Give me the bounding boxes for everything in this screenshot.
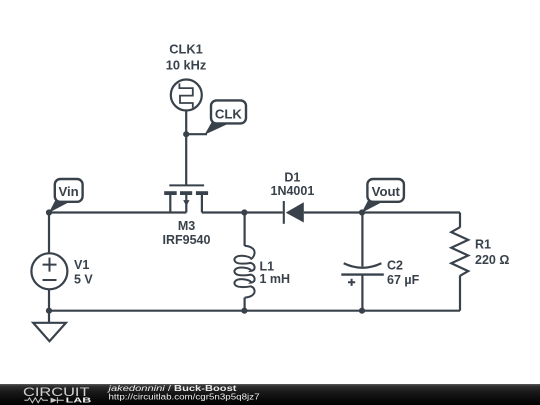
wire R1 bottom lead — [459, 276, 461, 311]
transistor M3 body lead — [185, 195, 187, 213]
svg-text:10 kHz: 10 kHz — [166, 57, 207, 72]
ground stub — [48, 311, 50, 323]
node ground junction dot — [46, 308, 52, 314]
transistor M3 body dash — [180, 191, 192, 195]
clock source CLK1 circle — [171, 80, 202, 111]
flag Vin tail — [49, 201, 70, 213]
flag Vout tail — [362, 201, 383, 213]
svg-text:1 mH: 1 mH — [260, 272, 291, 286]
capacitor C2 curved plate — [344, 263, 382, 268]
wire bottom rail — [49, 310, 460, 312]
voltage source V1 minus sign — [43, 279, 57, 281]
wire Vin node down to V1 — [48, 213, 50, 254]
ground symbol — [33, 323, 66, 341]
voltage source V1 circle — [31, 253, 67, 289]
wire drain to diode — [202, 211, 283, 213]
svg-text:C2: C2 — [387, 259, 403, 273]
flag CLK box — [211, 100, 246, 123]
inductor L1 coil — [234, 246, 254, 298]
svg-text:IRF9540: IRF9540 — [163, 233, 211, 247]
flag Vout box — [367, 179, 404, 202]
transistor M3 gate bar — [169, 184, 204, 186]
wire L1 top lead — [244, 213, 246, 246]
flag Vin box — [55, 179, 83, 202]
svg-text:5 V: 5 V — [74, 273, 93, 287]
capacitor C2 straight plate — [341, 273, 384, 275]
wire Vin node to MOSFET source/body — [49, 211, 186, 213]
svg-text:V1: V1 — [74, 258, 89, 272]
node C2 bottom dot — [359, 308, 365, 314]
svg-text:CLK1: CLK1 — [169, 42, 202, 57]
svg-text:http://circuitlab.com/cgr5n3p5: http://circuitlab.com/cgr5n3p5q8jz7 — [109, 393, 260, 402]
transistor M3 drain dash — [196, 191, 208, 195]
wire Vout node to C2 — [361, 213, 363, 267]
footer bar — [0, 384, 540, 405]
svg-text:1N4001: 1N4001 — [271, 184, 315, 198]
capacitor C2 plus sign — [348, 279, 355, 286]
clock source CLK1 waveform glyph — [179, 83, 192, 107]
transistor M3 source lead — [169, 195, 171, 213]
flag CLK tail — [205, 123, 230, 135]
transistor M3 body arrow — [183, 200, 189, 206]
svg-text:Vout: Vout — [372, 184, 401, 199]
svg-text:CLK: CLK — [215, 106, 243, 121]
logo schematic squiggle — [24, 397, 63, 403]
wire clock output to MOSFET gate — [185, 111, 187, 186]
node Vout dot — [359, 209, 365, 215]
wire diode to Vout node and R1 — [304, 211, 460, 213]
svg-text:D1: D1 — [284, 171, 300, 185]
diode D1 triangle — [286, 202, 304, 222]
diode D1 cathode bar — [283, 201, 285, 224]
svg-text:220 Ω: 220 Ω — [475, 253, 509, 267]
wire node to CLK flag tail — [186, 133, 207, 135]
voltage source V1 plus sign — [43, 258, 57, 272]
node L1 bottom dot — [241, 308, 247, 314]
svg-text:jakedonnini / Buck-Boost: jakedonnini / Buck-Boost — [107, 384, 237, 393]
svg-text:67 µF: 67 µF — [387, 273, 420, 287]
node Vin dot — [46, 209, 52, 215]
transistor M3 source dash — [164, 191, 177, 195]
svg-text:Vin: Vin — [58, 184, 78, 199]
svg-text:LAB: LAB — [66, 397, 92, 404]
svg-text:M3: M3 — [178, 219, 195, 233]
svg-text:R1: R1 — [475, 238, 491, 252]
node L1 top dot — [241, 209, 247, 215]
transistor M3 drain lead — [201, 195, 203, 213]
node CLK junction dot — [183, 131, 189, 137]
wire L1 bottom lead — [244, 298, 246, 311]
wire R1 top lead — [459, 213, 461, 228]
resistor R1 zigzag — [451, 227, 468, 276]
wire V1 to ground node — [48, 289, 50, 310]
wire C2 bottom lead — [361, 275, 363, 311]
